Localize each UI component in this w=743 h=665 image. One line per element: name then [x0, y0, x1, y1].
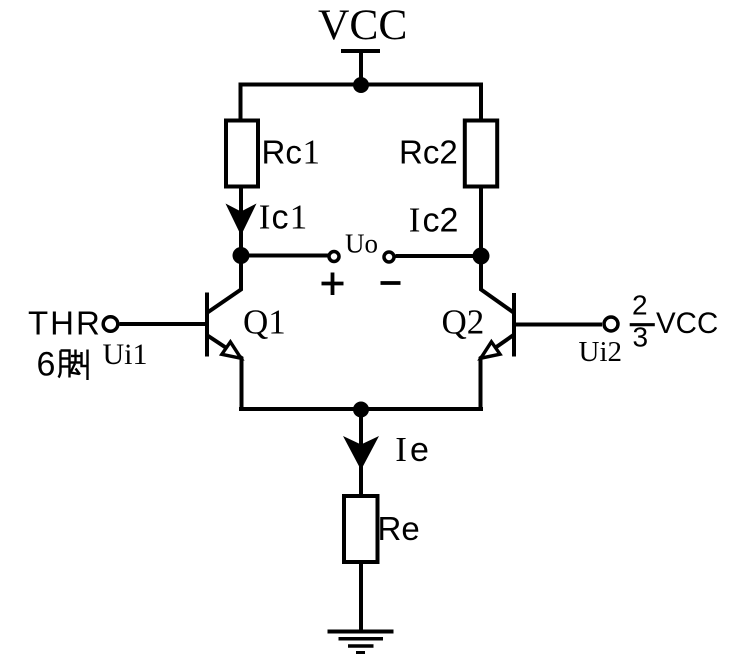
svg-text:THR: THR: [28, 305, 102, 342]
svg-text:Rc2: Rc2: [399, 134, 458, 171]
svg-text:Q2: Q2: [442, 303, 485, 342]
svg-text:2: 2: [440, 202, 459, 240]
svg-text:6: 6: [37, 346, 56, 384]
svg-text:Ui1: Ui1: [103, 338, 148, 371]
svg-text:Re: Re: [378, 510, 420, 547]
svg-text:e: e: [410, 431, 429, 469]
svg-text:VCC: VCC: [318, 1, 407, 49]
svg-text:I: I: [409, 201, 421, 240]
svg-text:Rc: Rc: [262, 134, 302, 171]
svg-text:1: 1: [303, 133, 321, 172]
svg-text:2: 2: [632, 290, 648, 321]
svg-text:Ui2: Ui2: [579, 336, 623, 368]
svg-text:c: c: [423, 202, 440, 240]
svg-text:Uo: Uo: [345, 229, 378, 259]
svg-text:Q1: Q1: [243, 302, 286, 341]
svg-text:3: 3: [633, 322, 649, 353]
svg-text:VCC: VCC: [656, 307, 718, 340]
svg-text:I: I: [259, 198, 271, 237]
svg-text:I: I: [395, 430, 407, 469]
svg-text:1: 1: [290, 198, 308, 237]
svg-text:c: c: [272, 199, 289, 237]
